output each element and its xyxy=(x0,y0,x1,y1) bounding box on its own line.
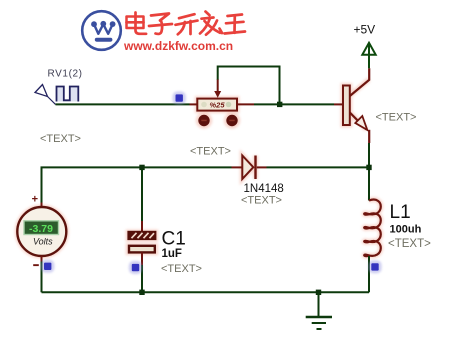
wire: diode to emitter junction xyxy=(267,166,370,168)
junction at capacitor top branch xyxy=(139,165,144,170)
transistor Q1 xyxy=(343,68,369,143)
wire: junction down to inductor xyxy=(368,170,370,201)
ground xyxy=(306,292,332,329)
svg-text:C1: C1 xyxy=(162,228,186,249)
svg-text:+: + xyxy=(32,193,38,205)
generator RV1(2) label xyxy=(48,69,83,80)
wire: bottom rail xyxy=(42,291,370,293)
wire: inductor to bottom rail xyxy=(368,256,370,292)
wire: emitter down to diode junction xyxy=(368,143,370,167)
kai xyxy=(179,14,195,18)
selection handle near inductor xyxy=(368,260,381,273)
logo circle W mark xyxy=(82,11,121,50)
svg-text:1uF: 1uF xyxy=(162,248,182,260)
fa xyxy=(206,12,210,16)
zi xyxy=(151,14,169,21)
wire: generator to pot left xyxy=(56,103,190,105)
svg-text:Volts: Volts xyxy=(33,236,53,246)
label L1 xyxy=(390,202,411,223)
wire: wiper loop to main wire xyxy=(218,67,280,105)
svg-text:RV1(2): RV1(2) xyxy=(48,69,83,80)
svg-text:%25: %25 xyxy=(209,101,225,110)
potentiometer RV1 body xyxy=(197,99,237,111)
svg-text:1N4148: 1N4148 xyxy=(244,183,284,195)
selection handle near pot xyxy=(173,91,186,104)
pot wiper pin and arrow xyxy=(214,79,221,98)
pot right pin xyxy=(237,103,255,105)
svg-text:<TEXT>: <TEXT> xyxy=(40,133,81,145)
label C1 xyxy=(162,228,186,249)
pot adjust buttons xyxy=(198,115,237,126)
placeholder text below diode xyxy=(241,195,282,207)
diode D1 right pin xyxy=(257,166,267,168)
junction bottom rail / ground xyxy=(316,290,321,295)
svg-text:<TEXT>: <TEXT> xyxy=(241,195,282,207)
inductor L1 xyxy=(364,200,381,256)
diode D1 1N4148 xyxy=(242,156,255,180)
selection handle near capacitor xyxy=(129,261,142,274)
svg-text:100uh: 100uh xyxy=(390,224,422,236)
voltmeter top pin xyxy=(41,203,43,209)
wire: collector to power xyxy=(368,44,370,69)
transistor Q1 base pin xyxy=(334,103,343,105)
label 1uF xyxy=(162,248,182,260)
wang xyxy=(228,15,243,17)
wire: voltmeter to bottom rail xyxy=(41,262,43,293)
svg-text:-3.79: -3.79 xyxy=(29,223,53,235)
placeholder text right of transistor xyxy=(376,112,417,124)
junction at loop / main wire xyxy=(277,102,282,107)
logo xyxy=(82,11,245,53)
capacitor C1 top pin xyxy=(141,221,143,232)
wire: pot to transistor base xyxy=(254,103,334,105)
placeholder text above diode xyxy=(190,146,231,158)
svg-text:www.dzkfw.com.cn: www.dzkfw.com.cn xyxy=(123,39,233,53)
svg-text:<TEXT>: <TEXT> xyxy=(388,238,431,250)
logo chinese characters 电子开发王 xyxy=(127,12,246,35)
voltmeter VM1 xyxy=(17,193,66,266)
placeholder text below L1 xyxy=(388,238,431,250)
placeholder text left below RV1 xyxy=(40,133,81,145)
junction emitter/diode wire xyxy=(366,165,371,170)
dian xyxy=(134,13,137,18)
placeholder text below C1 xyxy=(161,263,202,275)
selection handle near voltmeter xyxy=(41,260,54,273)
junction bottom rail / capacitor xyxy=(139,290,144,295)
red glow underlay xyxy=(17,80,380,257)
svg-text:L1: L1 xyxy=(390,202,411,223)
capacitor C1 xyxy=(128,232,155,253)
svg-text:<TEXT>: <TEXT> xyxy=(376,112,417,124)
label 1N4148 xyxy=(244,183,284,195)
pot left pin xyxy=(190,103,198,105)
generator RV1(2) pulse source symbol xyxy=(35,85,78,105)
diode D1 left pin xyxy=(232,166,243,168)
wire: capacitor to bottom rail xyxy=(141,265,143,292)
power +5V symbol xyxy=(354,23,376,55)
capacitor C1 bottom pin xyxy=(141,252,143,265)
wire: cap junction down to capacitor xyxy=(141,170,143,221)
label 100uh xyxy=(390,224,422,236)
svg-text:<TEXT>: <TEXT> xyxy=(190,146,231,158)
svg-text:+5V: +5V xyxy=(354,23,376,37)
svg-text:<TEXT>: <TEXT> xyxy=(161,263,202,275)
wire: voltmeter top corner to diode xyxy=(42,167,232,202)
voltmeter bottom pin xyxy=(41,256,43,262)
